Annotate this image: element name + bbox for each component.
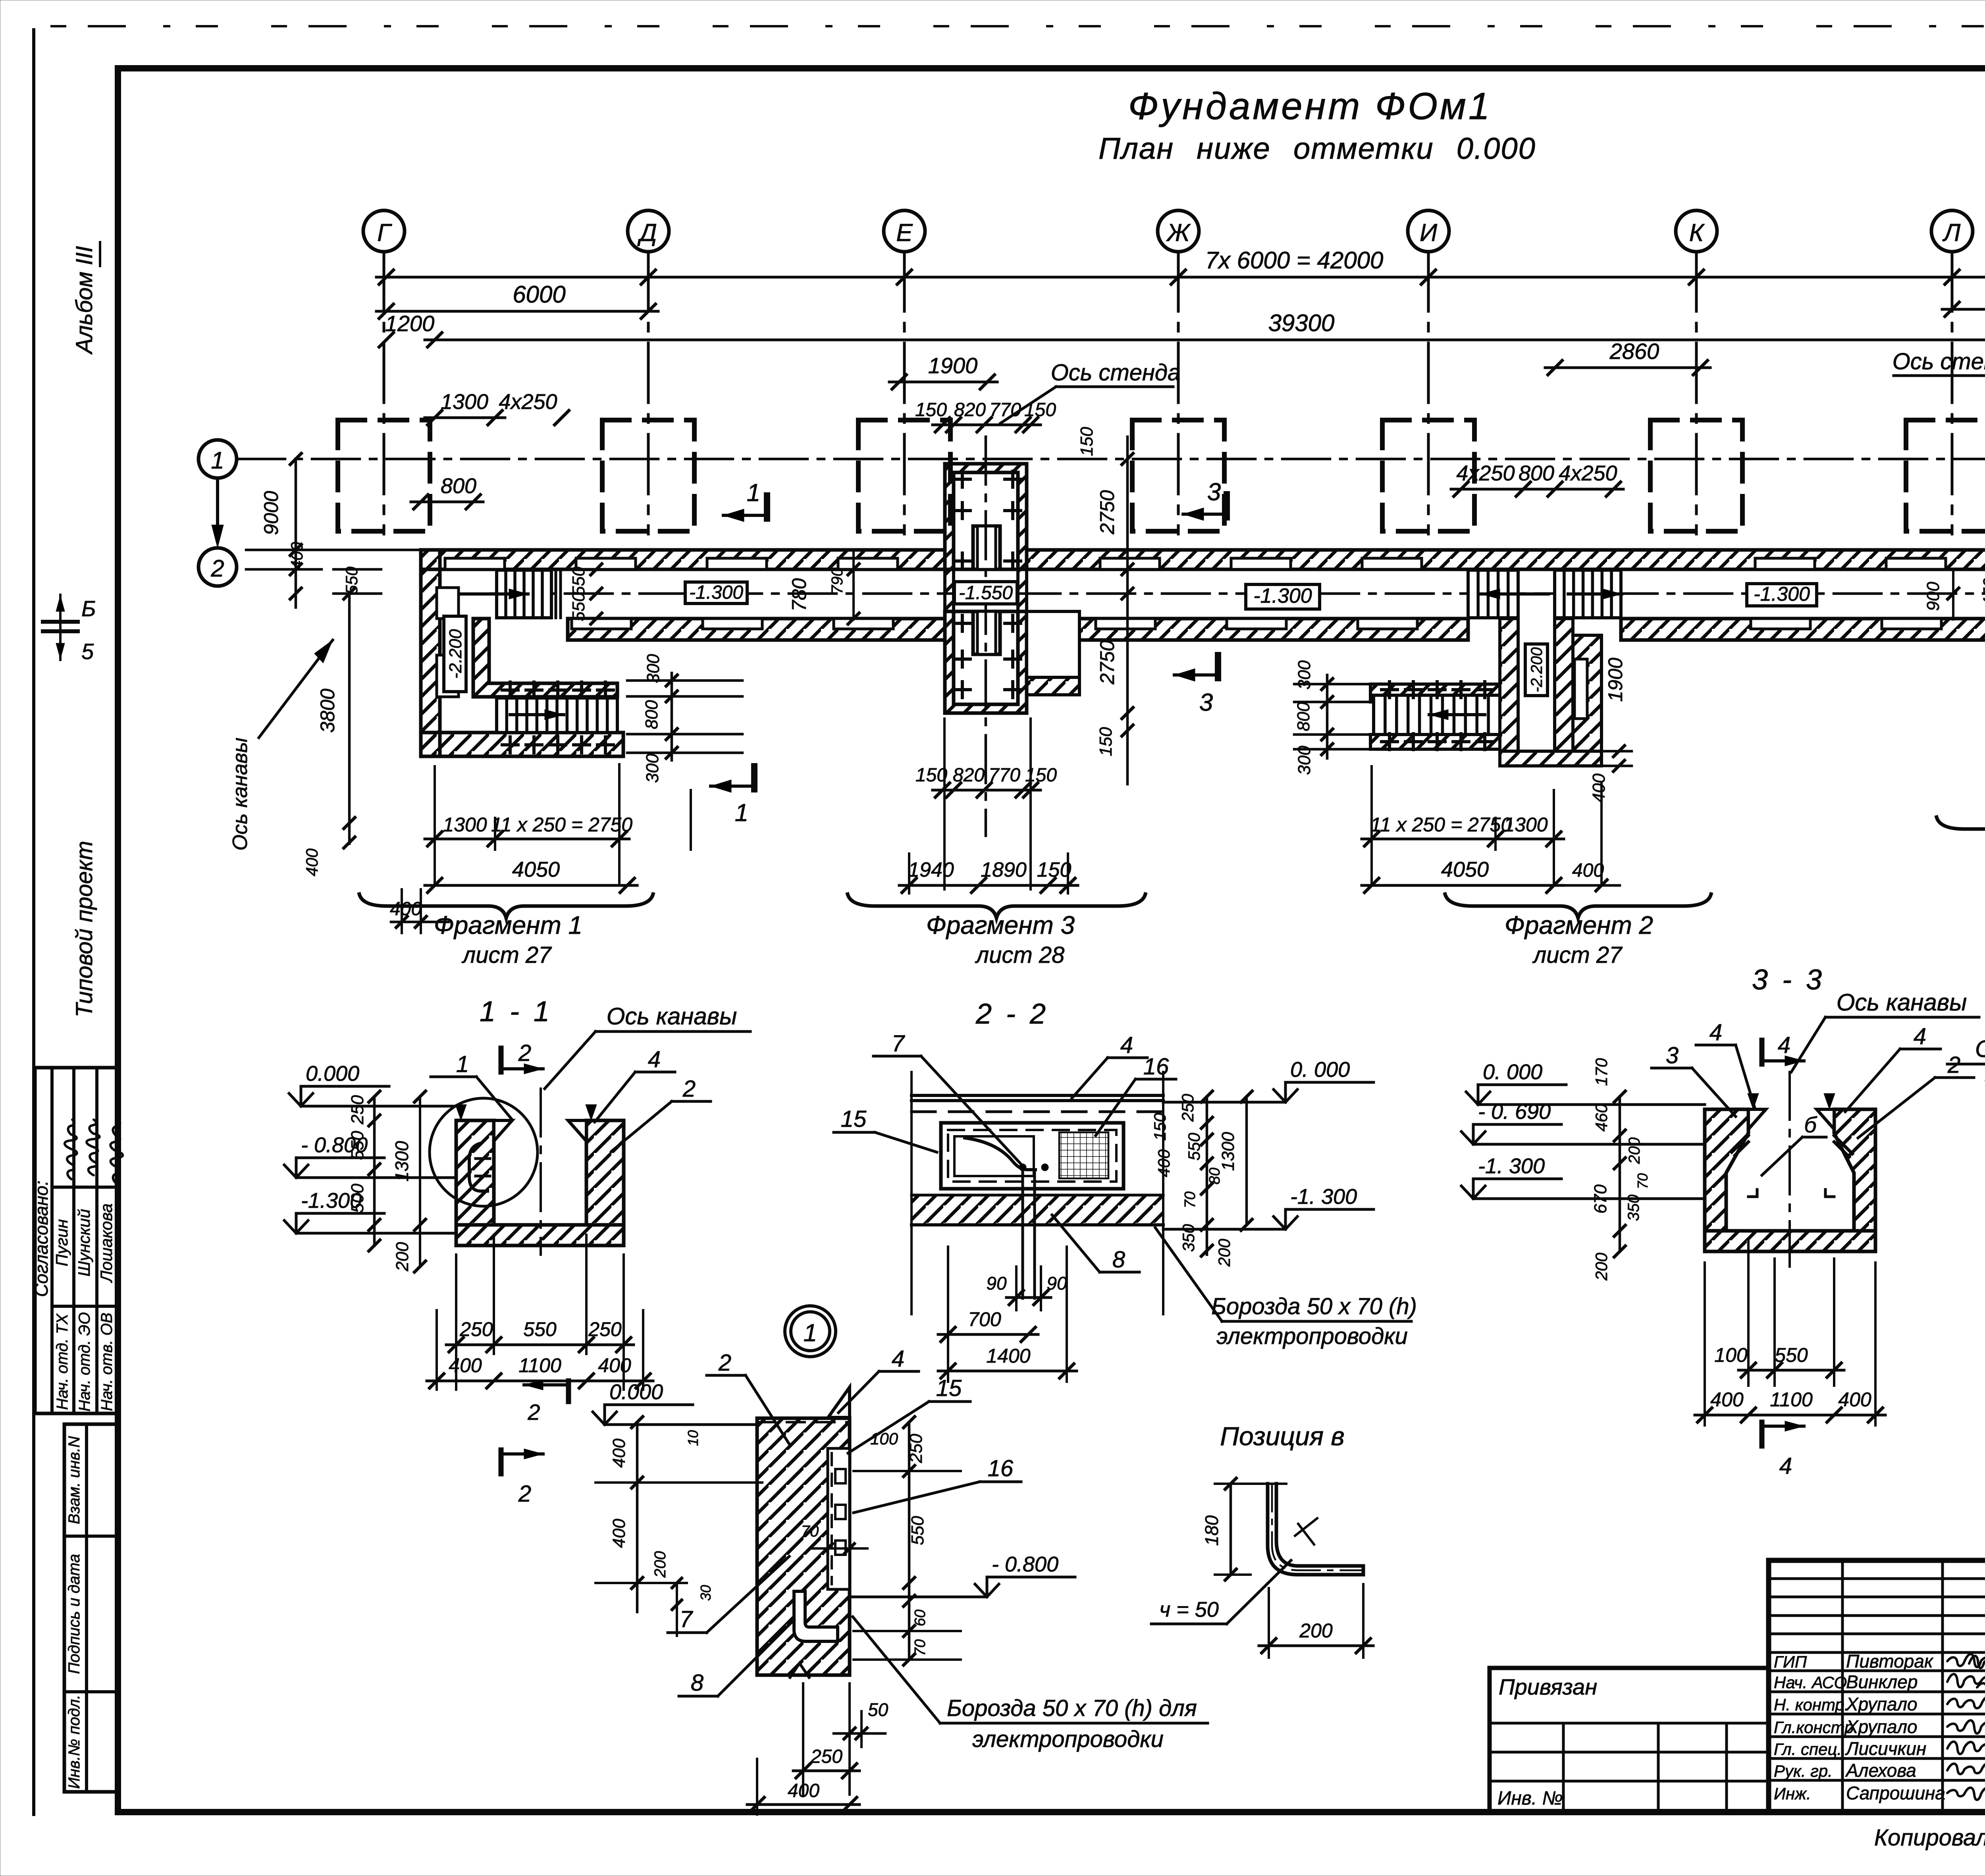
svg-text:0.000: 0.000 <box>306 1062 359 1085</box>
svg-text:4: 4 <box>1914 1024 1926 1049</box>
svg-text:лист 28: лист 28 <box>975 942 1065 968</box>
svg-text:электропроводки: электропроводки <box>972 1726 1164 1752</box>
signatures in Согласовано table <box>65 1120 123 1183</box>
grid axis line Е <box>903 252 906 534</box>
svg-text:800: 800 <box>1519 461 1554 485</box>
svg-text:790: 790 <box>829 568 846 594</box>
svg-text:-1.300: -1.300 <box>1253 584 1312 607</box>
dimension 6000 right <box>1942 308 1985 311</box>
svg-text:Позиция в: Позиция в <box>1220 1421 1345 1451</box>
svg-text:1200: 1200 <box>385 311 435 336</box>
svg-text:8: 8 <box>691 1670 703 1696</box>
svg-text:800: 800 <box>1294 702 1313 731</box>
section 1-1 cut marker 2 bottom <box>499 1450 504 1474</box>
level label -1.300 box 3 <box>1747 584 1817 606</box>
svg-text:2750: 2750 <box>1096 640 1118 684</box>
fragment 1 lower stairs arrow <box>510 713 564 716</box>
svg-text:550: 550 <box>1185 1132 1203 1161</box>
fragment 3 brace and label <box>848 894 1145 918</box>
svg-text:И: И <box>1420 219 1438 247</box>
svg-text:400: 400 <box>303 848 321 876</box>
grid axis line Л <box>1951 252 1954 534</box>
left dim chain 9000 <box>295 459 297 607</box>
svg-text:200: 200 <box>1626 1138 1643 1165</box>
svg-text:Фрагмент 1: Фрагмент 1 <box>434 911 582 939</box>
svg-text:Винклер: Винклер <box>1846 1672 1918 1692</box>
svg-text:250: 250 <box>906 1434 926 1463</box>
svg-text:3: 3 <box>1199 689 1213 716</box>
svg-text:1900: 1900 <box>1604 657 1627 702</box>
fragment 1 upper stairs <box>497 570 551 618</box>
svg-text:200: 200 <box>1299 1620 1333 1642</box>
svg-text:2: 2 <box>518 1040 531 1066</box>
svg-text:Подпись и дата: Подпись и дата <box>66 1554 83 1674</box>
axis 1 dash-dot line <box>237 458 1985 461</box>
fragment 1 right dim chain 300 800 300 <box>627 681 742 753</box>
column footprint square Е <box>858 420 950 531</box>
title block names table <box>1769 1560 1985 1812</box>
stand 1 right dim chain 2750 2750 <box>1126 437 1129 784</box>
grid axis line Ж <box>1177 252 1180 534</box>
stand 1 level label -1.550 <box>954 582 1017 604</box>
fragment 1 wall recess 1 <box>437 588 459 619</box>
level label -1.300 box 2 <box>1246 584 1320 609</box>
dimension 2860 <box>1545 366 1710 369</box>
svg-text:16: 16 <box>988 1456 1014 1481</box>
svg-text:550: 550 <box>569 567 588 596</box>
svg-text:2: 2 <box>527 1400 540 1425</box>
svg-text:1300: 1300 <box>441 390 488 414</box>
svg-text:100: 100 <box>870 1429 898 1448</box>
svg-text:250: 250 <box>348 1095 367 1125</box>
svg-text:60: 60 <box>912 1610 929 1626</box>
svg-text:550: 550 <box>1775 1344 1808 1366</box>
svg-text:70: 70 <box>1634 1173 1651 1189</box>
svg-text:1100: 1100 <box>1770 1388 1813 1411</box>
svg-text:Инв.№ подл.: Инв.№ подл. <box>66 1695 83 1789</box>
grid circle Е <box>884 210 925 252</box>
section 2-2 mesh patch <box>1059 1132 1108 1178</box>
svg-text:4: 4 <box>1120 1032 1133 1058</box>
position v bend cross <box>1295 1518 1317 1544</box>
svg-text:50: 50 <box>868 1699 888 1720</box>
svg-text:электропроводки: электропроводки <box>1216 1323 1408 1349</box>
svg-text:5: 5 <box>81 639 94 664</box>
stand pad notches top band <box>445 558 505 569</box>
section 3-3 corbels <box>1748 1109 1834 1129</box>
svg-text:150: 150 <box>1077 427 1097 456</box>
svg-text:39300: 39300 <box>1268 310 1335 336</box>
svg-text:10: 10 <box>685 1430 701 1446</box>
grid axis line К <box>1695 252 1698 534</box>
grid axis line Г <box>383 252 385 534</box>
left margin table Согласовано <box>35 1068 118 1413</box>
svg-text:3800: 3800 <box>316 688 339 733</box>
fragment 2 pit top wall <box>1370 684 1500 702</box>
svg-text:1: 1 <box>804 1319 817 1347</box>
svg-text:820: 820 <box>953 765 985 786</box>
grid circle К <box>1676 210 1717 252</box>
svg-text:400: 400 <box>1589 773 1609 803</box>
svg-text:15: 15 <box>936 1375 962 1401</box>
position v dim 180 <box>1230 1484 1232 1575</box>
fragment 1 upper stairs arrow <box>461 592 528 596</box>
column footprint square Ж <box>1132 420 1224 531</box>
cut marker 3 bottom <box>1215 655 1221 678</box>
fragment 2 upper stairs right <box>1555 570 1621 618</box>
svg-text:4х250: 4х250 <box>1559 461 1617 485</box>
svg-text:8: 8 <box>1112 1247 1125 1273</box>
svg-text:770: 770 <box>989 399 1021 420</box>
fragment 1 level label -2.200 <box>444 616 466 692</box>
stand 1 axis line <box>985 437 987 836</box>
svg-text:4х250: 4х250 <box>499 390 557 414</box>
svg-text:400: 400 <box>609 1438 629 1468</box>
svg-text:-2.200: -2.200 <box>1528 647 1546 692</box>
detail 1 left dim chain <box>636 1422 639 1612</box>
svg-text:1300: 1300 <box>443 814 487 836</box>
svg-text:Привязан: Привязан <box>1499 1674 1597 1699</box>
svg-text:4: 4 <box>1778 1032 1790 1058</box>
svg-text:150: 150 <box>1151 1112 1169 1141</box>
svg-text:70: 70 <box>912 1639 929 1656</box>
grid axis line И <box>1427 252 1430 534</box>
svg-text:Отверстие: Отверстие <box>1975 1035 1985 1062</box>
fragment 1 brace and label <box>359 894 653 918</box>
svg-text:-2.200: -2.200 <box>446 629 465 679</box>
fragment 2 leg left wall <box>1500 619 1518 751</box>
svg-text:Б: Б <box>81 596 96 621</box>
svg-text:200: 200 <box>393 1242 412 1272</box>
section 1-1 right wall <box>586 1120 624 1225</box>
fragment 2 leg right wall <box>1555 619 1573 751</box>
section 1-1 corbel right <box>568 1120 586 1141</box>
svg-text:Взам. инв.N: Взам. инв.N <box>66 1436 83 1524</box>
svg-text:11 х 250 = 2750: 11 х 250 = 2750 <box>1370 814 1512 836</box>
svg-text:800: 800 <box>642 700 661 729</box>
svg-text:Е: Е <box>896 219 913 247</box>
fragment 2 pit stairs <box>1374 695 1500 735</box>
svg-text:Г: Г <box>377 219 392 247</box>
sheet top edge scan line <box>52 25 1985 27</box>
fragment 1 outer bottom wall <box>421 733 623 756</box>
svg-text:15: 15 <box>841 1106 867 1132</box>
stand 1 canal side walls <box>945 569 954 611</box>
left dim chain 3800 400 <box>348 594 351 844</box>
svg-text:700: 700 <box>968 1308 1001 1330</box>
fragment 1 plus marks <box>502 682 518 698</box>
svg-text:80: 80 <box>1206 1168 1223 1184</box>
svg-text:70: 70 <box>801 1523 819 1540</box>
svg-text:6000: 6000 <box>513 281 565 308</box>
svg-text:300: 300 <box>1295 746 1314 775</box>
svg-text:3: 3 <box>1207 478 1221 506</box>
cut marker 1 bottom <box>751 766 757 789</box>
svg-text:лист 27: лист 27 <box>1532 942 1623 968</box>
svg-text:90: 90 <box>986 1273 1007 1294</box>
svg-text:Лошакова: Лошакова <box>97 1203 116 1283</box>
detail 1 top flag <box>828 1387 850 1417</box>
svg-text:250: 250 <box>459 1318 493 1340</box>
svg-text:Шунский: Шунский <box>75 1209 93 1276</box>
svg-text:Фрагмент 3: Фрагмент 3 <box>926 911 1075 939</box>
section 3-3 cut marker 4 top <box>1760 1040 1765 1064</box>
svg-text:лист 27: лист 27 <box>462 942 553 968</box>
svg-text:550: 550 <box>569 592 588 621</box>
column footprint square Л <box>1906 420 1985 531</box>
title block left attach part <box>1490 1668 1769 1812</box>
level label -1.300 box 1 <box>685 582 747 603</box>
fragment 1 dims below <box>435 764 691 885</box>
svg-text:400: 400 <box>1154 1149 1173 1177</box>
detail 1 break mark <box>790 1663 809 1677</box>
stand 1 plus marks <box>954 471 970 487</box>
position v dim 200 <box>1268 1588 1270 1658</box>
section 2-2 body <box>912 1095 1163 1225</box>
svg-text:1400: 1400 <box>986 1345 1030 1367</box>
svg-text:1 - 1: 1 - 1 <box>480 996 553 1028</box>
svg-text:400: 400 <box>788 1780 819 1801</box>
svg-text:2: 2 <box>682 1076 696 1102</box>
svg-text:180: 180 <box>1201 1515 1222 1546</box>
svg-text:ч = 50: ч = 50 <box>1159 1598 1219 1621</box>
fragment 2 leg foot <box>1500 751 1601 766</box>
axis direction arrow <box>216 478 219 539</box>
svg-text:400: 400 <box>1710 1388 1744 1411</box>
foundation strip bottom band <box>568 619 945 640</box>
fragment 2 pit bottom wall <box>1370 735 1500 749</box>
dimension 6000 left <box>376 310 658 313</box>
svg-text:150: 150 <box>1025 765 1057 786</box>
axis circle 1 left <box>198 440 237 478</box>
dimension 1300 4x250 left <box>425 416 505 419</box>
section 3-3 dims below <box>1705 1239 1875 1425</box>
svg-text:б: б <box>1804 1112 1817 1137</box>
detail 1 bracket pos 8 <box>794 1591 838 1641</box>
svg-text:250: 250 <box>588 1318 622 1340</box>
section 2-2 bottom hatch strip <box>912 1195 1163 1225</box>
svg-text:400: 400 <box>1572 860 1604 881</box>
title block signatures <box>1947 1654 1985 1667</box>
fragment 1 outer left wall <box>421 550 440 756</box>
svg-text:4050: 4050 <box>1441 858 1489 881</box>
dimension 39300 <box>425 339 1985 341</box>
svg-text:2: 2 <box>518 1481 531 1507</box>
svg-text:400: 400 <box>598 1354 631 1377</box>
svg-text:460: 460 <box>1592 1103 1611 1132</box>
svg-text:-1.300: -1.300 <box>689 582 743 603</box>
section 3-3 left wall <box>1705 1109 1748 1231</box>
svg-text:150: 150 <box>915 765 947 786</box>
svg-text:0.000: 0.000 <box>609 1380 663 1404</box>
svg-text:400: 400 <box>449 1354 482 1377</box>
svg-text:670: 670 <box>1591 1184 1610 1214</box>
section 2-2 conduit <box>965 1138 1035 1170</box>
sheet left edge line <box>32 30 35 1814</box>
svg-text:Гл.констр: Гл.констр <box>1774 1718 1854 1737</box>
svg-text:-1.300: -1.300 <box>1754 583 1810 605</box>
svg-text:780: 780 <box>788 578 810 611</box>
svg-text:0. 000: 0. 000 <box>1290 1058 1350 1082</box>
svg-text:800: 800 <box>441 474 476 498</box>
svg-text:-1. 300: -1. 300 <box>1478 1154 1545 1178</box>
column footprint square Г <box>338 420 430 531</box>
svg-text:Борозда 50 х 70 (h) для: Борозда 50 х 70 (h) для <box>947 1695 1197 1721</box>
stand pad notches bottom band <box>572 619 631 629</box>
svg-text:1940: 1940 <box>908 858 954 881</box>
svg-text:16: 16 <box>1143 1054 1169 1080</box>
svg-text:Фундамент ФОм1: Фундамент ФОм1 <box>1128 85 1492 127</box>
svg-text:250: 250 <box>810 1746 842 1767</box>
section 3-3 canal axis line <box>1788 1072 1791 1267</box>
svg-text:1: 1 <box>456 1051 469 1077</box>
svg-text:- 0.800: - 0.800 <box>992 1552 1058 1576</box>
svg-text:4: 4 <box>1779 1453 1792 1479</box>
svg-text:Борозда 50 х 70 (h): Борозда 50 х 70 (h) <box>1211 1294 1417 1319</box>
svg-text:Лисичкин: Лисичкин <box>1845 1738 1926 1759</box>
svg-text:400: 400 <box>609 1519 629 1548</box>
svg-text:Нач. АСО: Нач. АСО <box>1774 1673 1847 1692</box>
svg-text:150: 150 <box>915 399 947 420</box>
svg-text:Н. контр.: Н. контр. <box>1774 1695 1849 1714</box>
fragment 1 wall recess 2 <box>437 655 459 697</box>
section 3-3 step notches <box>1748 1190 1834 1197</box>
fragment 2 wall recess <box>1575 659 1587 719</box>
fragment 3 dims below <box>909 719 1068 893</box>
svg-text:Типовой проект: Типовой проект <box>71 841 97 1018</box>
dimension 4x250 800 4x250 <box>1451 488 1623 491</box>
svg-text:500: 500 <box>348 1184 367 1213</box>
svg-text:200: 200 <box>1215 1238 1233 1267</box>
svg-text:1: 1 <box>211 447 224 474</box>
grid circle Г <box>363 210 405 252</box>
section 3-3 left dim chain <box>1619 1097 1621 1251</box>
svg-text:Пивторак: Пивторак <box>1846 1651 1934 1672</box>
svg-text:550: 550 <box>348 1131 367 1160</box>
svg-text:250: 250 <box>1178 1093 1197 1122</box>
column footprint square Д <box>602 420 694 531</box>
svg-text:7х 6000 = 42000: 7х 6000 = 42000 <box>1205 247 1384 274</box>
svg-text:170: 170 <box>1592 1058 1611 1086</box>
svg-text:200: 200 <box>651 1551 669 1578</box>
cut marker 1 top <box>764 496 770 519</box>
svg-text:1300: 1300 <box>391 1141 412 1182</box>
svg-text:2 - 2: 2 - 2 <box>975 998 1049 1030</box>
svg-text:1300: 1300 <box>1503 814 1548 836</box>
detail 1 wall <box>757 1418 850 1675</box>
svg-text:4: 4 <box>1709 1020 1722 1045</box>
canal axis dash-dot line <box>490 592 1985 595</box>
svg-text:Алехова: Алехова <box>1845 1760 1916 1781</box>
svg-text:2: 2 <box>718 1350 731 1376</box>
svg-text:30: 30 <box>698 1585 714 1601</box>
stand 1 lower slot <box>973 611 1000 654</box>
fragment 2 pit stairs arrow <box>1429 713 1485 716</box>
foundation strip top band <box>421 550 945 569</box>
svg-text:1100: 1100 <box>518 1354 561 1377</box>
axis circle 2 left <box>198 548 237 586</box>
fragment 2 plus marks <box>1382 682 1397 698</box>
fragment 2 dims below <box>1372 766 1601 885</box>
grid circle Д <box>628 210 669 252</box>
svg-text:550: 550 <box>523 1318 557 1340</box>
svg-text:Рук. гр.: Рук. гр. <box>1774 1762 1833 1780</box>
section 2-2 right dim chains <box>1206 1097 1208 1255</box>
section 1-1 dims below <box>437 1235 643 1390</box>
section 3-3 bottom slab <box>1705 1231 1875 1251</box>
stand 1 lower box <box>945 611 1027 713</box>
svg-text:1900: 1900 <box>928 353 978 378</box>
svg-text:1: 1 <box>735 799 748 827</box>
svg-text:200: 200 <box>1592 1252 1611 1281</box>
svg-text:Сапрошина: Сапрошина <box>1846 1783 1945 1803</box>
svg-text:Фрагмент 2: Фрагмент 2 <box>1505 911 1653 939</box>
dimension 1900 <box>889 381 997 384</box>
svg-text:Ж: Ж <box>1166 219 1191 247</box>
section 1-1 detail circle <box>430 1098 538 1206</box>
svg-text:3: 3 <box>1666 1043 1679 1068</box>
svg-text:Согласовано:: Согласовано: <box>31 1180 52 1297</box>
fragment 2 left dim chain 300 800 300 <box>1294 684 1374 749</box>
section 3-3 cut marker 4 bottom <box>1760 1422 1765 1446</box>
svg-text:Хрупало: Хрупало <box>1846 1694 1918 1714</box>
section 1-1 bottom slab <box>456 1225 624 1246</box>
svg-text:Копировал Киннова: Копировал Киннова <box>1874 1825 1985 1851</box>
dimension 7x6000=42000 <box>376 276 1985 279</box>
column footprint square И <box>1382 420 1474 531</box>
dimension 150 820 770 150 top <box>933 424 1041 426</box>
svg-text:Альбом III: Альбом III <box>71 246 97 355</box>
detail 1 dims below <box>757 1683 861 1814</box>
fragment 2 upper stairs left <box>1468 570 1518 618</box>
section 1-1 cut marker 2 top <box>499 1048 504 1072</box>
column footprint square К <box>1650 420 1742 531</box>
svg-text:Инж.: Инж. <box>1774 1784 1811 1803</box>
svg-text:Ось стенда: Ось стенда <box>1051 360 1181 386</box>
svg-text:550: 550 <box>908 1516 927 1545</box>
stand 1 right canal opening <box>1027 611 1079 677</box>
svg-text:Ось канавы: Ось канавы <box>1837 989 1967 1016</box>
section marker B left <box>59 595 62 660</box>
section 1-1 left wall <box>456 1120 494 1225</box>
svg-text:2750: 2750 <box>1096 490 1118 534</box>
stand 1 upper box <box>945 464 1027 569</box>
fragment 2 brace and label <box>1445 894 1711 918</box>
grid circle Ж <box>1158 210 1199 252</box>
svg-text:7: 7 <box>892 1031 906 1057</box>
svg-text:Д: Д <box>637 219 657 247</box>
position v hook <box>1268 1484 1363 1575</box>
svg-text:4: 4 <box>892 1346 904 1372</box>
svg-text:400: 400 <box>287 542 306 570</box>
cut marker 3 top <box>1224 494 1230 517</box>
svg-text:7: 7 <box>680 1606 694 1632</box>
grid circle Л <box>1931 210 1973 252</box>
detail circle callout 1 <box>785 1306 836 1357</box>
svg-text:100: 100 <box>1714 1344 1748 1366</box>
svg-text:Гл. спец.: Гл. спец. <box>1774 1740 1842 1758</box>
svg-text:9000: 9000 <box>260 491 282 535</box>
section 1-1 corbel left <box>494 1120 512 1141</box>
svg-text:450: 450 <box>1980 578 1985 607</box>
svg-text:Ось стенда: Ось стенда <box>1892 349 1985 374</box>
fragment 2 level label -2.200 <box>1525 644 1548 696</box>
svg-text:820: 820 <box>954 399 986 420</box>
section 3-3 angle pieces <box>1732 1136 1852 1157</box>
section 2-2 niche <box>941 1123 1124 1189</box>
svg-text:400: 400 <box>1838 1388 1871 1411</box>
svg-text:План ниже отметки 0.000: План ниже отметки 0.000 <box>1098 132 1536 166</box>
